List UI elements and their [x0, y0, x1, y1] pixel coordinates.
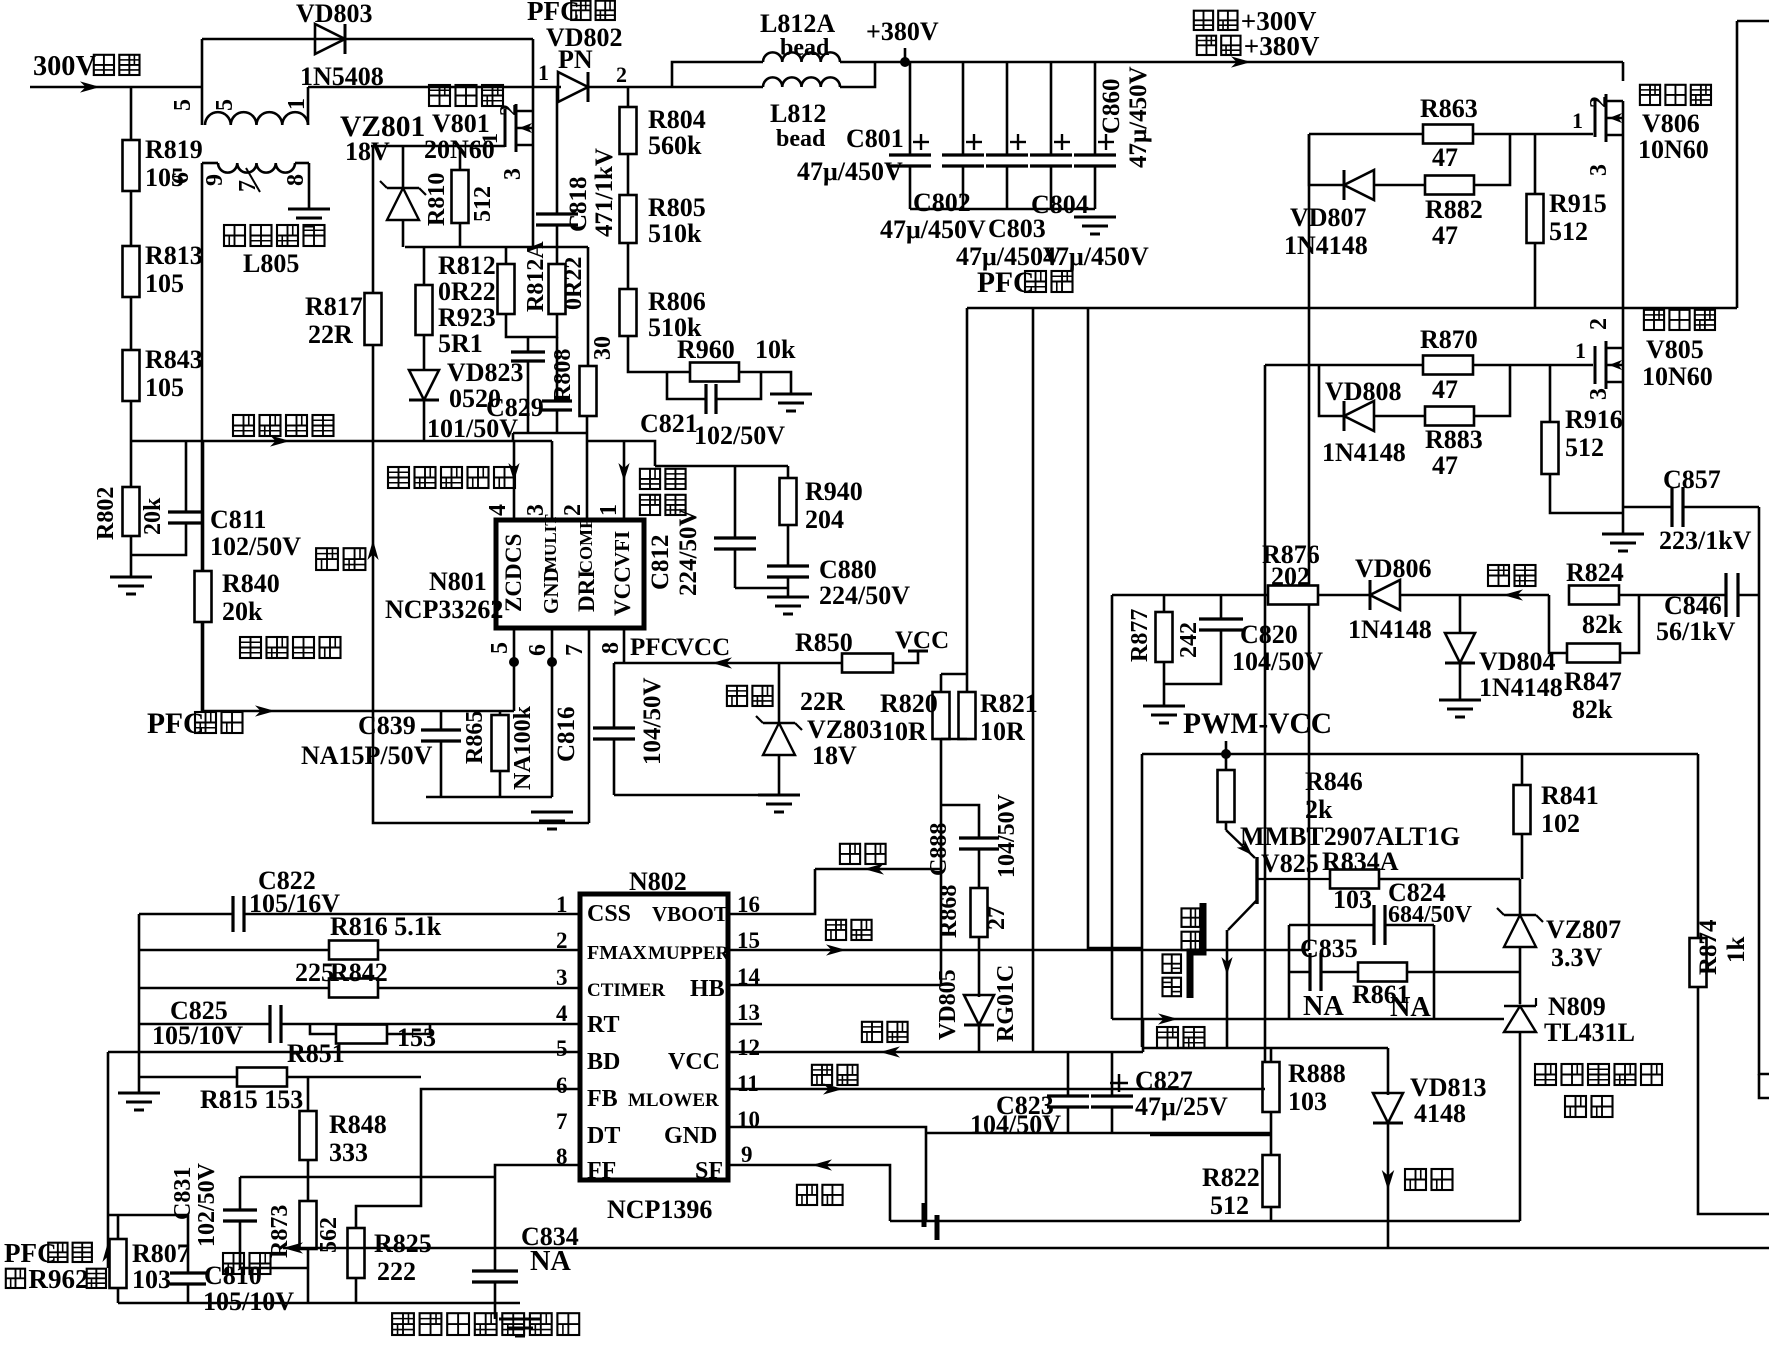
- svg-text:L812: L812: [770, 99, 826, 128]
- wire gate drive from N801 DRI: [373, 345, 589, 823]
- capacitor C857 223/1kV: [1623, 465, 1759, 555]
- capacitor C831 102/50V: [170, 1162, 308, 1268]
- resistor R842 225: [139, 958, 580, 998]
- svg-text:105/16V: 105/16V: [249, 889, 340, 918]
- svg-text:NA15P/50V: NA15P/50V: [301, 741, 433, 770]
- svg-text:1: 1: [1575, 338, 1586, 363]
- svg-text:L805: L805: [243, 249, 299, 278]
- diode VD823 0520: [409, 358, 524, 413]
- wire FB pin6: [421, 1089, 580, 1177]
- svg-text:1N4148: 1N4148: [1479, 673, 1563, 702]
- resistor R876 202: [1262, 540, 1320, 605]
- label PFC filter: [977, 267, 1073, 299]
- wire VD808-R883: [1374, 415, 1425, 418]
- switch state marker protection/normal: [1163, 903, 1204, 998]
- capacitor C803 47u/450V: [956, 62, 1062, 271]
- svg-text:56/1kV: 56/1kV: [1656, 617, 1736, 646]
- svg-text:3: 3: [1586, 164, 1612, 176]
- resistor R863 47: [1420, 94, 1478, 172]
- svg-text:C804: C804: [1031, 190, 1089, 219]
- capacitor C816 104/50V: [553, 663, 666, 795]
- svg-text:47μ/450V: 47μ/450V: [880, 215, 986, 244]
- svg-text:104/50V: 104/50V: [994, 793, 1020, 878]
- svg-text:105: 105: [145, 163, 184, 192]
- wire V806 gate line: [1309, 133, 1593, 136]
- svg-text:C880: C880: [819, 555, 877, 584]
- ground cap bank: [1074, 217, 1116, 234]
- wire C829 bottom bus: [513, 432, 587, 435]
- svg-text:102/50V: 102/50V: [210, 532, 301, 561]
- svg-text:104/50V: 104/50V: [639, 678, 666, 766]
- svg-text:0R22: 0R22: [561, 257, 587, 310]
- node PWM-VCC tap: [1221, 741, 1231, 759]
- svg-text:R960: R960: [677, 335, 735, 364]
- svg-text:R824: R824: [1566, 558, 1624, 587]
- label protection SF: [797, 1159, 843, 1205]
- svg-text:V801: V801: [432, 109, 490, 138]
- svg-text:VBOOT: VBOOT: [652, 902, 728, 926]
- ground R960/C821: [770, 394, 812, 411]
- capacitor C802 47u/450V: [880, 62, 986, 244]
- wire R843 bottom: [130, 401, 133, 441]
- wire base line right: [1379, 878, 1520, 881]
- svg-text:47: 47: [1432, 221, 1458, 250]
- wire V806 drain: [1622, 62, 1625, 81]
- wire gate line: [371, 145, 505, 148]
- ground C880: [767, 597, 809, 614]
- resistor R802 20k: [93, 487, 166, 540]
- svg-text:1: 1: [538, 60, 549, 85]
- resistor R817 22R: [305, 146, 382, 349]
- resistor R808 30: [550, 247, 616, 416]
- wire PFC sample vertical: [107, 1052, 110, 1268]
- wire VD802 cathode to bead: [586, 86, 763, 89]
- wire R804 top: [627, 87, 630, 107]
- wire rail down left: [1141, 754, 1144, 1047]
- arrow sample feedback into VFI: [618, 441, 629, 520]
- svg-text:C812: C812: [647, 534, 674, 590]
- label 300V pulsating input: [33, 51, 140, 82]
- ground VZ803: [758, 795, 800, 812]
- wire lower junction line: [240, 1176, 495, 1179]
- svg-text:NCP1396: NCP1396: [607, 1195, 712, 1224]
- wire R802 top: [130, 441, 133, 487]
- wire network to TL431: [1434, 971, 1520, 974]
- arrow input direction: [80, 81, 100, 92]
- wire R883 right node: [1474, 365, 1510, 416]
- svg-text:153: 153: [397, 1023, 436, 1052]
- svg-text:512: 512: [1210, 1191, 1249, 1220]
- label VZ801: [340, 111, 425, 166]
- svg-text:R806: R806: [648, 287, 706, 316]
- svg-text:47μ/450V: 47μ/450V: [1125, 66, 1152, 168]
- svg-text:VCC: VCC: [668, 1049, 720, 1075]
- svg-text:47μ/450V: 47μ/450V: [797, 157, 903, 186]
- svg-text:RG01C: RG01C: [993, 965, 1019, 1042]
- capacitor C821 102/50V: [640, 372, 785, 450]
- ground R802: [110, 577, 152, 594]
- label PFC rectifier VD802: [527, 0, 623, 74]
- capacitor C880 224/50V: [767, 525, 910, 610]
- svg-text:L812A: L812A: [760, 9, 835, 38]
- wire R877 bottom: [1163, 662, 1166, 706]
- resistor R825 222: [348, 1177, 432, 1286]
- wire TL431 cathode down: [1519, 1032, 1522, 1221]
- resistor R888 103: [1263, 1048, 1346, 1116]
- wire VD808 branch left: [1319, 365, 1344, 416]
- wire VBOOT pin16: [728, 869, 815, 914]
- svg-text:R863: R863: [1420, 94, 1478, 123]
- svg-text:V806: V806: [1642, 109, 1700, 138]
- label feedback arrow: [1488, 565, 1536, 601]
- wire top right exit: [1737, 20, 1769, 23]
- label main switching power supply: [392, 1313, 579, 1335]
- wire MUPPER pin15 drive: [728, 949, 1309, 952]
- svg-text:NA: NA: [530, 1246, 571, 1277]
- capacitor C846 56/1kV: [1656, 573, 1759, 646]
- label drive upper: [826, 920, 872, 956]
- diode VD802 PN: [538, 60, 627, 102]
- label drive (ji li): [316, 548, 365, 570]
- svg-text:R817: R817: [305, 292, 363, 321]
- ground C834: [499, 1319, 541, 1336]
- resistor R812 0R22: [438, 251, 515, 314]
- diode VD805 RG01C: [935, 950, 1019, 1052]
- diode VD806 1N4148: [1348, 554, 1432, 644]
- wire VD803 branch: [202, 38, 533, 41]
- capacitor C827 47u/25V: [1091, 1052, 1228, 1133]
- wire R805-R806: [627, 243, 630, 289]
- svg-text:R843: R843: [145, 345, 203, 374]
- resistor R877 242: [1127, 595, 1202, 662]
- svg-text:NCP33262: NCP33262: [385, 595, 503, 624]
- svg-text:3: 3: [500, 168, 526, 180]
- ground V805 source: [1602, 534, 1644, 551]
- wire VD803 cathode / V801 drain: [532, 39, 535, 111]
- capacitor C804 47u/450V: [1030, 62, 1149, 271]
- diode VD804 1N4148: [1445, 595, 1563, 702]
- svg-text:R808: R808: [550, 349, 576, 402]
- wire VCC pin12: [728, 1051, 1143, 1054]
- wire R882 right node: [1474, 134, 1510, 185]
- svg-text:1: 1: [1572, 108, 1583, 133]
- wire R806 to R960: [628, 336, 690, 372]
- label mains sampling: [233, 415, 334, 447]
- wire R819 top: [130, 87, 133, 140]
- wire sense cap down: [527, 361, 530, 433]
- svg-text:4: 4: [556, 1001, 568, 1026]
- wire R888 bottom: [1270, 1112, 1273, 1135]
- wire R822 bottom: [1270, 1207, 1273, 1221]
- wire L805 pin5/pin1 leads: [202, 39, 308, 125]
- svg-text:512: 512: [470, 186, 496, 222]
- diode VD813 4148: [1373, 1048, 1487, 1248]
- capacitor C824 684/50V: [1289, 878, 1473, 945]
- VCC source tick: [893, 627, 949, 663]
- resistor R807 103: [108, 1215, 190, 1294]
- svg-text:CS: CS: [501, 534, 526, 563]
- ground N802 left: [118, 1093, 160, 1110]
- svg-text:1k: 1k: [1723, 937, 1750, 964]
- resistor R812A 0R22: [523, 241, 587, 314]
- wire half-bridge mid bus: [967, 307, 1737, 310]
- wire regulation bus: [283, 1247, 1769, 1250]
- svg-text:300V: 300V: [33, 51, 96, 82]
- svg-text:510k: 510k: [648, 219, 702, 248]
- svg-text:R962: R962: [28, 1264, 88, 1294]
- shunt regulator N809 TL431L: [1504, 992, 1635, 1047]
- svg-text:R846: R846: [1305, 767, 1363, 796]
- svg-text:R848: R848: [329, 1110, 387, 1139]
- wire divider top: [1142, 1047, 1388, 1050]
- label supply to VCC: [862, 1022, 908, 1058]
- svg-text:BD: BD: [587, 1049, 620, 1075]
- wire V805 gate line: [1265, 364, 1593, 367]
- svg-text:2: 2: [1586, 318, 1612, 330]
- diode VD808 1N4148: [1322, 377, 1406, 467]
- svg-text:1N4148: 1N4148: [1348, 615, 1432, 644]
- wire R810 bottom: [459, 223, 462, 247]
- resistor R940 204: [780, 466, 863, 534]
- wire GND pin10: [728, 1127, 926, 1221]
- svg-text:5: 5: [170, 99, 196, 111]
- svg-text:10k: 10k: [755, 335, 796, 364]
- svg-text:CSS: CSS: [587, 901, 631, 927]
- wire R840 bottom: [202, 622, 205, 711]
- svg-text:9: 9: [741, 1142, 753, 1167]
- svg-text:C857: C857: [1663, 465, 1721, 494]
- svg-text:GND: GND: [664, 1123, 717, 1149]
- wire VD807 branch left: [1309, 134, 1344, 185]
- wire zero-cross line: [202, 710, 514, 713]
- wire VZ801 top: [402, 146, 405, 188]
- svg-text:VD813: VD813: [1410, 1073, 1487, 1102]
- svg-text:R810: R810: [424, 173, 450, 226]
- wire R802 bottom: [130, 536, 133, 577]
- ground VD804: [1439, 700, 1481, 717]
- svg-text:47μ/450V: 47μ/450V: [1043, 242, 1149, 271]
- svg-text:10R: 10R: [882, 717, 927, 746]
- svg-text:82k: 82k: [1582, 610, 1623, 639]
- svg-text:11: 11: [737, 1071, 759, 1096]
- svg-text:VZ803: VZ803: [807, 715, 882, 744]
- svg-text:R847: R847: [1564, 667, 1622, 696]
- wire to C888: [941, 805, 979, 838]
- svg-text:13: 13: [737, 1000, 760, 1025]
- wire divider down: [940, 739, 943, 985]
- label PWM-VCC: [1183, 708, 1332, 740]
- svg-text:105: 105: [145, 373, 184, 402]
- svg-text:R834A: R834A: [1322, 847, 1399, 876]
- resistor R874 1k: [1690, 754, 1751, 987]
- resistor R824 82k: [1566, 558, 1624, 639]
- wire left long vertical: [201, 163, 204, 711]
- wire R812 top: [505, 247, 508, 264]
- svg-text:V805: V805: [1646, 335, 1704, 364]
- svg-text:DT: DT: [587, 1123, 620, 1149]
- wire pin5 ZCD down: [509, 520, 519, 711]
- wire R810 top: [459, 146, 462, 170]
- wire C816/VZ803 ground bus: [614, 794, 779, 797]
- capacitor C818 471/1kV: [536, 87, 618, 247]
- label supply feed: [712, 657, 773, 706]
- arrow +380V bus: [1231, 56, 1251, 67]
- resistor R960 10k: [677, 335, 796, 382]
- svg-text:22R: 22R: [800, 687, 845, 716]
- wire R873 bottom: [307, 1249, 310, 1303]
- svg-text:C811: C811: [210, 505, 266, 534]
- resistor R848 333: [300, 1077, 387, 1167]
- svg-text:6: 6: [556, 1073, 568, 1098]
- resistor R923 5R1: [416, 247, 496, 358]
- svg-text:N809: N809: [1548, 992, 1606, 1021]
- resistor R915 512: [1527, 134, 1607, 246]
- wire R824 to C846: [1619, 594, 1726, 597]
- svg-text:VD823: VD823: [447, 358, 524, 387]
- wire V805 source down: [1622, 382, 1625, 534]
- wire VD806 to R824 node: [1399, 594, 1549, 597]
- svg-text:C827: C827: [1135, 1066, 1193, 1095]
- svg-text:R868: R868: [936, 885, 962, 938]
- wire ground bus right: [890, 1220, 1520, 1223]
- resistor R861 NA: [1322, 925, 1434, 1023]
- svg-text:103: 103: [1288, 1087, 1327, 1116]
- svg-text:FB: FB: [587, 1086, 618, 1112]
- svg-text:5: 5: [212, 99, 238, 111]
- wire R804-R805: [627, 154, 630, 195]
- svg-text:SF: SF: [695, 1158, 723, 1184]
- svg-text:PWM-VCC: PWM-VCC: [1183, 708, 1332, 740]
- svg-text:+380V: +380V: [1244, 31, 1320, 61]
- svg-text:R821: R821: [980, 689, 1038, 718]
- svg-text:C835: C835: [1300, 934, 1358, 963]
- svg-text:10N60: 10N60: [1638, 135, 1709, 164]
- wire VZ801 bottom: [402, 220, 405, 247]
- wire mid-bus to divider: [966, 308, 969, 674]
- wire HB pin14: [728, 984, 941, 987]
- svg-text:2k: 2k: [1305, 795, 1333, 824]
- wire feedback down: [1111, 595, 1114, 1019]
- svg-text:R812: R812: [438, 251, 496, 280]
- wire divider bottoms: [941, 738, 967, 741]
- resistor R873 562: [267, 1177, 342, 1258]
- svg-text:20k: 20k: [140, 497, 166, 535]
- wire feedback lower line: [1112, 1018, 1504, 1021]
- svg-text:104/50V: 104/50V: [970, 1110, 1061, 1139]
- wire collector to divider: [1226, 1019, 1229, 1048]
- svg-text:R819: R819: [145, 135, 203, 164]
- svg-text:1N4148: 1N4148: [1322, 438, 1406, 467]
- wire R825 bottom: [355, 1278, 358, 1303]
- wire SF pin9: [728, 1165, 890, 1221]
- svg-text:102/50V: 102/50V: [694, 421, 785, 450]
- svg-text:103: 103: [132, 1265, 171, 1294]
- svg-text:6: 6: [525, 644, 551, 656]
- wire BD line: [108, 1051, 580, 1054]
- capacitor C810 105/10V: [170, 1215, 294, 1316]
- resistor R820 10R: [880, 674, 967, 746]
- zener VZ801 18V: [380, 181, 426, 220]
- capacitor C835 NA: [1289, 925, 1358, 1022]
- wire right top branch: [1736, 21, 1739, 308]
- svg-text:C831: C831: [170, 1167, 196, 1220]
- svg-text:R873: R873: [267, 1205, 293, 1258]
- svg-text:C846: C846: [1664, 591, 1722, 620]
- svg-text:684/50V: 684/50V: [1388, 902, 1473, 928]
- svg-text:4148: 4148: [1414, 1099, 1466, 1128]
- resistor R840 20k: [195, 441, 280, 626]
- wire VD807-R882: [1374, 184, 1425, 187]
- svg-text:8: 8: [598, 642, 624, 654]
- wire VCC ground bus: [926, 1132, 1271, 1135]
- svg-text:PN: PN: [558, 45, 593, 74]
- svg-text:105/10V: 105/10V: [203, 1287, 294, 1316]
- diode VD807 1N4148: [1284, 170, 1374, 260]
- capacitor sense (unlabeled): [511, 352, 545, 361]
- svg-text:202: 202: [1271, 562, 1310, 591]
- label protection lower: [1405, 1169, 1453, 1190]
- label energy-storage inductor L805: [224, 225, 325, 278]
- svg-text:2: 2: [560, 504, 586, 516]
- svg-text:512: 512: [1565, 433, 1604, 462]
- wire R812/R812A bottoms: [506, 314, 557, 337]
- svg-text:R888: R888: [1288, 1059, 1346, 1088]
- resistor R846 2k: [1218, 754, 1363, 824]
- svg-text:TL431L: TL431L: [1544, 1018, 1635, 1047]
- capacitor C860 47u/450V: [1074, 62, 1152, 209]
- svg-text:R805: R805: [648, 193, 706, 222]
- resistor R916 512: [1542, 365, 1623, 474]
- wire V801 source bus: [405, 246, 588, 249]
- capacitor C825 105/10V: [139, 996, 580, 1050]
- svg-text:102/50V: 102/50V: [194, 1162, 220, 1247]
- svg-text:3: 3: [556, 965, 568, 990]
- inductor L812A bead: [672, 9, 875, 87]
- wire R915 bottom: [1534, 243, 1537, 308]
- wire divider mid to vcc bus: [1150, 1134, 1271, 1137]
- zener VZ803 18V: [756, 663, 882, 795]
- label standby/on voltages: [1194, 6, 1320, 61]
- capacitor C801 47u/450V: [797, 62, 931, 209]
- IC N801 NCP33262: [385, 504, 644, 656]
- svg-text:2: 2: [616, 62, 627, 87]
- transistor V825 MMBT2907ALT1G: [1221, 822, 1460, 1019]
- svg-text:VCC: VCC: [676, 634, 730, 661]
- svg-text:27: 27: [984, 906, 1010, 930]
- wire V806 source to mid bus: [1622, 135, 1625, 308]
- svg-text:47: 47: [1432, 375, 1458, 404]
- svg-text:R883: R883: [1425, 425, 1483, 454]
- svg-text:R851: R851: [287, 1039, 345, 1068]
- resistor R816 5.1k: [139, 912, 580, 960]
- svg-text:224/50V: 224/50V: [675, 509, 702, 597]
- wire pin6 GND down: [547, 628, 557, 797]
- svg-text:0R22: 0R22: [438, 277, 496, 306]
- resistor R870 47: [1420, 325, 1478, 404]
- svg-text:VFI: VFI: [610, 531, 634, 567]
- arrow over-current into CS: [508, 463, 519, 481]
- svg-text:333: 333: [329, 1138, 368, 1167]
- svg-text:9: 9: [202, 174, 228, 186]
- wire PFC VCC line: [614, 634, 842, 663]
- label sample feedback: [640, 469, 686, 515]
- wire inductor to VD802: [308, 86, 561, 89]
- svg-text:223/1kV: 223/1kV: [1659, 526, 1752, 555]
- svg-text:102: 102: [1541, 809, 1580, 838]
- wire mid-bus to VCC rail: [1032, 308, 1035, 1052]
- svg-text:DRI: DRI: [574, 570, 599, 612]
- svg-text:R916: R916: [1565, 405, 1623, 434]
